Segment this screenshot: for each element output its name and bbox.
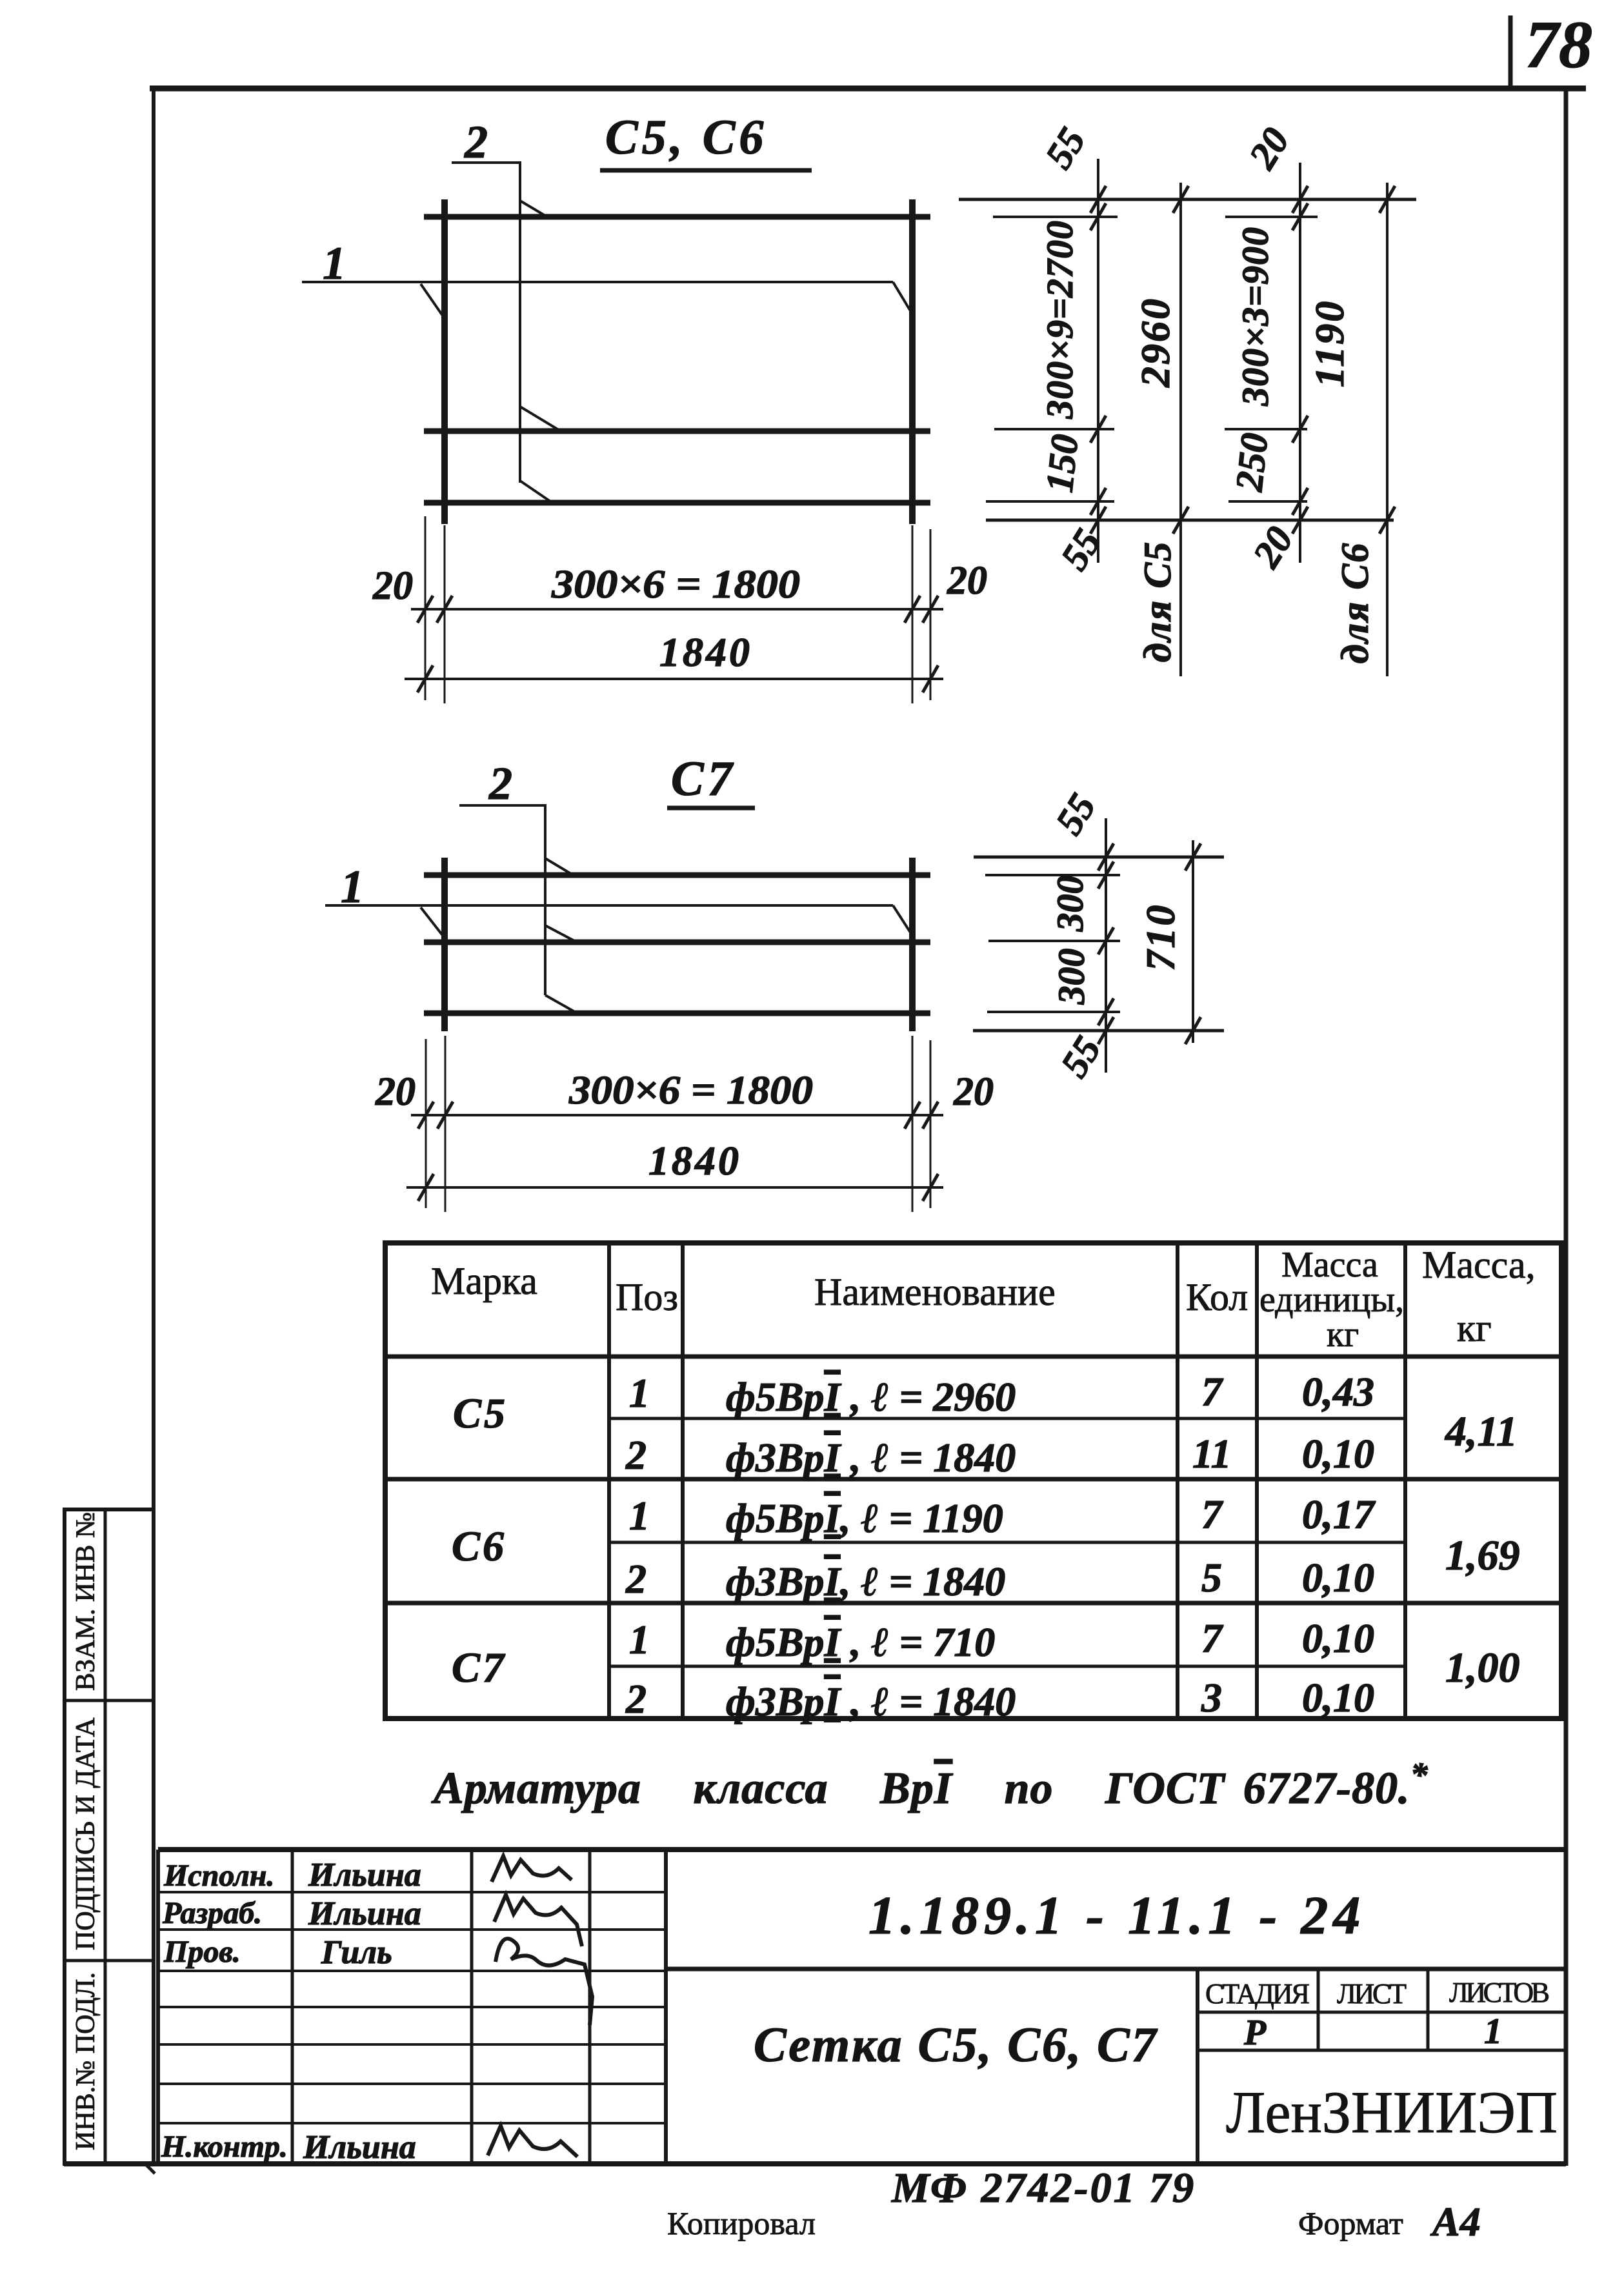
bottom cross wire bbox=[424, 1011, 930, 1016]
tick bbox=[418, 1174, 434, 1201]
chain line C5 detail bbox=[1097, 159, 1099, 563]
svg-text:2960: 2960 bbox=[1132, 297, 1178, 388]
row line C7 inner bbox=[609, 1665, 1405, 1668]
chain line C6 overall bbox=[1386, 183, 1388, 676]
svg-text:Разраб.: Разраб. bbox=[162, 1896, 262, 1930]
svg-text:ЛенЗНИИЭП: ЛенЗНИИЭП bbox=[1226, 2079, 1558, 2145]
svg-text:55: 55 bbox=[1037, 120, 1094, 176]
svg-text:0,43: 0,43 bbox=[1302, 1369, 1374, 1415]
svg-text:4,11: 4,11 bbox=[1444, 1408, 1518, 1455]
svg-text:1: 1 bbox=[629, 1617, 650, 1662]
svg-text:20: 20 bbox=[375, 1070, 416, 1114]
svg-text:ЛИСТОВ: ЛИСТОВ bbox=[1449, 1977, 1550, 2008]
dim line 300x6=1800 bbox=[411, 608, 943, 610]
svg-text:Ильина: Ильина bbox=[308, 1895, 421, 1932]
svg-text:20: 20 bbox=[953, 1070, 994, 1114]
tick bbox=[1090, 186, 1106, 213]
extension line right bar bbox=[912, 1036, 914, 1212]
extension line left bar bbox=[445, 1036, 446, 1212]
tick bbox=[1292, 416, 1308, 443]
middle cross wire bbox=[424, 940, 930, 945]
svg-text:2: 2 bbox=[625, 1676, 647, 1722]
tick bbox=[1090, 203, 1106, 230]
dim line 1840 bbox=[405, 678, 943, 680]
wire3 extension bbox=[987, 1011, 1120, 1013]
wire11 extension a bbox=[986, 500, 1114, 503]
svg-text:ПОДПИСЬ И ДАТА: ПОДПИСЬ И ДАТА bbox=[71, 1717, 101, 1950]
table outer border bbox=[385, 1243, 1561, 1719]
left edge bar bbox=[441, 199, 448, 524]
wire 2 tie mark b bbox=[545, 925, 578, 943]
tick bbox=[1173, 186, 1188, 213]
svg-text:20: 20 bbox=[1241, 120, 1298, 176]
extension line left outer bbox=[425, 516, 426, 700]
svg-text:Р: Р bbox=[1243, 2013, 1267, 2053]
bottom extension line bbox=[986, 519, 1394, 522]
tick bbox=[923, 1174, 938, 1201]
wire 1 right hook bbox=[893, 282, 912, 313]
svg-text:2: 2 bbox=[464, 116, 488, 168]
left stamp divider vertical bbox=[104, 1509, 107, 2164]
svg-text:710: 710 bbox=[1138, 903, 1183, 971]
wire10 extension a bbox=[994, 428, 1114, 430]
column line 1 bbox=[291, 1850, 294, 2164]
tick bbox=[1090, 488, 1106, 515]
svg-text:5: 5 bbox=[1201, 1555, 1222, 1600]
top cross wire bbox=[424, 214, 930, 220]
svg-text:ф3ВрI, ℓ = 1840: ф3ВрI, ℓ = 1840 bbox=[726, 1559, 1005, 1604]
svg-text:20: 20 bbox=[947, 559, 987, 603]
tick bbox=[1185, 1017, 1201, 1044]
right edge bar bbox=[909, 199, 916, 524]
extension line right bar bbox=[912, 525, 914, 703]
svg-text:Ильина: Ильина bbox=[303, 2129, 416, 2166]
svg-text:2: 2 bbox=[625, 1556, 647, 1602]
svg-text:С7: С7 bbox=[671, 752, 736, 806]
extension line right outer bbox=[930, 1040, 932, 1208]
tick bbox=[1292, 186, 1308, 213]
tick bbox=[437, 596, 452, 623]
title underline bbox=[667, 806, 755, 811]
tick bbox=[923, 1102, 938, 1129]
tick bbox=[1185, 843, 1201, 871]
column line 2 bbox=[470, 1850, 474, 2164]
stadia header underline bbox=[1198, 2011, 1566, 2014]
left stamp outer box bbox=[65, 1509, 154, 2164]
column line Marka|Poz bbox=[607, 1243, 611, 1719]
svg-text:Масса: Масса bbox=[1281, 1245, 1378, 1285]
svg-text:0,10: 0,10 bbox=[1302, 1555, 1374, 1600]
svg-text:для С6: для С6 bbox=[1334, 542, 1376, 663]
tick bbox=[1098, 1017, 1114, 1044]
wire 1 left hook bbox=[421, 284, 444, 318]
svg-text:Копировал: Копировал bbox=[667, 2205, 816, 2241]
stadia value underline bbox=[1198, 2049, 1566, 2052]
svg-text:Ильина: Ильина bbox=[308, 1857, 421, 1893]
svg-text:11: 11 bbox=[1192, 1431, 1231, 1477]
tick bbox=[1098, 862, 1114, 889]
svg-text:ВЗАМ. ИНВ №: ВЗАМ. ИНВ № bbox=[71, 1512, 101, 1691]
signature 2 bbox=[494, 1895, 582, 1946]
svg-text:0,10: 0,10 bbox=[1302, 1675, 1374, 1720]
svg-text:1: 1 bbox=[1484, 2012, 1502, 2052]
svg-text:СТАДИЯ: СТАДИЯ bbox=[1205, 1978, 1310, 2010]
bottom cross wire bbox=[424, 500, 930, 506]
row line 3 bbox=[158, 1970, 666, 1972]
svg-text:1.189.1 - 11.1 - 24: 1.189.1 - 11.1 - 24 bbox=[868, 1886, 1365, 1946]
svg-text:1840: 1840 bbox=[648, 1138, 741, 1184]
svg-text:1,69: 1,69 bbox=[1445, 1532, 1520, 1579]
svg-text:А4: А4 bbox=[1430, 2199, 1481, 2245]
svg-text:250: 250 bbox=[1227, 431, 1276, 494]
svg-text:ЛИСТ: ЛИСТ bbox=[1337, 1978, 1407, 2010]
column line 3 bbox=[588, 1850, 592, 2164]
tick bbox=[923, 596, 938, 623]
svg-text:Масса,: Масса, bbox=[1422, 1244, 1536, 1286]
chain line C6 detail bbox=[1299, 163, 1301, 563]
svg-text:Н.контр.: Н.контр. bbox=[161, 2130, 288, 2164]
svg-text:Марка: Марка bbox=[431, 1260, 537, 1302]
svg-text:7: 7 bbox=[1201, 1615, 1224, 1661]
title block top border bbox=[158, 1847, 1566, 1852]
svg-text:1,00: 1,00 bbox=[1445, 1644, 1520, 1691]
tick bbox=[418, 1102, 434, 1129]
svg-text:единицы,: единицы, bbox=[1259, 1280, 1404, 1320]
doc number box divider bbox=[666, 1967, 1566, 1972]
column line Poz|Naimenovanie bbox=[681, 1243, 685, 1719]
chain line C7 detail bbox=[1105, 818, 1107, 1073]
svg-text:Исполн.: Исполн. bbox=[163, 1859, 274, 1893]
wire 2 leader hook bbox=[452, 163, 520, 483]
svg-text:55: 55 bbox=[1047, 786, 1104, 842]
tick bbox=[1173, 507, 1188, 534]
extension line left outer bbox=[425, 1039, 427, 1208]
frame top border bbox=[150, 86, 1586, 92]
extension line right outer bbox=[930, 529, 932, 700]
extension line left bar bbox=[444, 525, 446, 703]
left stamp divider 2 bbox=[65, 1959, 154, 1962]
wire 2 tie mark a bbox=[545, 858, 574, 876]
wire1 extension b bbox=[1225, 216, 1318, 218]
corner mark bbox=[145, 2163, 155, 2174]
row line 4 bbox=[158, 2006, 666, 2008]
column line Naimenovanie|Kol bbox=[1176, 1243, 1179, 1719]
tick bbox=[905, 1102, 920, 1129]
wire 1 left hook bbox=[421, 907, 444, 937]
wire 2 tie mark c bbox=[545, 995, 579, 1014]
svg-text:1: 1 bbox=[629, 1493, 650, 1538]
tick bbox=[1292, 488, 1308, 515]
svg-text:0,17: 0,17 bbox=[1302, 1491, 1376, 1537]
svg-text:Сетка С5, С6, С7: Сетка С5, С6, С7 bbox=[754, 2018, 1158, 2072]
chain line C7 overall bbox=[1192, 840, 1194, 1043]
title underline bbox=[600, 168, 812, 173]
svg-text:300×9=2700: 300×9=2700 bbox=[1039, 220, 1081, 419]
signature 4 bbox=[488, 2126, 577, 2157]
column line 4 bbox=[664, 1850, 668, 2164]
svg-text:300: 300 bbox=[1050, 949, 1092, 1005]
svg-text:С5: С5 bbox=[453, 1390, 508, 1437]
signature 3 bbox=[496, 1939, 592, 2025]
frame left border bbox=[152, 86, 155, 2166]
wire 2 tie mark c bbox=[520, 481, 552, 503]
top extension line bbox=[959, 198, 1416, 201]
header separator row bbox=[385, 1355, 1561, 1359]
svg-text:С7: С7 bbox=[452, 1644, 506, 1691]
tick bbox=[1090, 416, 1106, 443]
row line C6 inner bbox=[609, 1541, 1405, 1544]
right edge bar bbox=[909, 858, 916, 1031]
tick bbox=[437, 1102, 453, 1129]
svg-text:1: 1 bbox=[323, 237, 346, 289]
svg-text:Гиль: Гиль bbox=[321, 1934, 392, 1971]
svg-text:20: 20 bbox=[1245, 519, 1301, 575]
tick bbox=[1098, 998, 1114, 1025]
svg-text:0,10: 0,10 bbox=[1302, 1431, 1374, 1477]
row line 7 bbox=[158, 2122, 666, 2124]
svg-text:С5, С6: С5, С6 bbox=[605, 110, 767, 165]
middle cross wire bbox=[424, 429, 930, 434]
svg-text:300×6 = 1800: 300×6 = 1800 bbox=[568, 1069, 813, 1113]
wire1 extension a bbox=[993, 216, 1118, 218]
wire 2 tie mark b bbox=[520, 407, 557, 429]
svg-text:78: 78 bbox=[1525, 8, 1592, 82]
row line C5|C6 bbox=[385, 1477, 1561, 1482]
row line 2 bbox=[158, 1928, 666, 1931]
tick bbox=[1292, 203, 1308, 230]
left stamp divider 1 bbox=[65, 1699, 154, 1702]
svg-text:300×3=900: 300×3=900 bbox=[1234, 227, 1276, 407]
wire 1 right hook bbox=[893, 905, 912, 934]
top cross wire bbox=[424, 873, 930, 878]
frame right border bbox=[1564, 86, 1569, 2166]
svg-text:для С5: для С5 bbox=[1136, 541, 1179, 662]
svg-text:кг: кг bbox=[1327, 1315, 1359, 1355]
tick bbox=[1292, 507, 1308, 534]
tick bbox=[1379, 186, 1395, 213]
svg-text:1: 1 bbox=[341, 861, 364, 913]
wire 2 leader hook bbox=[459, 805, 545, 995]
row line 5 bbox=[158, 2043, 666, 2046]
svg-text:1190: 1190 bbox=[1307, 299, 1352, 387]
svg-text:7: 7 bbox=[1201, 1369, 1224, 1415]
page number tick bbox=[1509, 15, 1513, 86]
svg-text:3: 3 bbox=[1201, 1675, 1222, 1720]
svg-text:ф5ВрI , ℓ = 2960: ф5ВрI , ℓ = 2960 bbox=[726, 1374, 1016, 1420]
svg-text:МФ 2742-01 79: МФ 2742-01 79 bbox=[891, 2164, 1196, 2212]
svg-text:Наименование: Наименование bbox=[814, 1271, 1056, 1313]
tick bbox=[417, 665, 433, 692]
svg-text:Формат: Формат bbox=[1298, 2205, 1403, 2241]
name box right divider bbox=[1196, 1969, 1199, 2164]
tick bbox=[417, 596, 433, 623]
wire10 extension b bbox=[1225, 428, 1307, 430]
tick bbox=[1090, 507, 1106, 534]
svg-text:2: 2 bbox=[625, 1432, 647, 1478]
list listov divider bbox=[1427, 1969, 1430, 2050]
tick bbox=[1098, 927, 1114, 954]
frame bottom border bbox=[64, 2161, 1566, 2166]
wire 1 (longitudinal) bbox=[302, 281, 893, 283]
wire1 extension bbox=[985, 874, 1120, 876]
svg-text:ф5ВрI , ℓ = 710: ф5ВрI , ℓ = 710 bbox=[726, 1619, 995, 1665]
svg-text:Поз: Поз bbox=[616, 1276, 678, 1318]
row line 1 bbox=[158, 1891, 666, 1893]
tick bbox=[1098, 843, 1114, 871]
stadia list divider bbox=[1317, 1969, 1320, 2050]
chain line C5 overall bbox=[1179, 183, 1182, 676]
wire2 extension bbox=[988, 940, 1120, 942]
title block left border bbox=[156, 1850, 160, 2164]
svg-text:ф3ВрI , ℓ = 1840: ф3ВрI , ℓ = 1840 bbox=[726, 1679, 1016, 1724]
row line C5 inner bbox=[609, 1417, 1405, 1420]
dim line 300x6=1800 bbox=[411, 1114, 943, 1116]
svg-text:Кол: Кол bbox=[1186, 1276, 1248, 1318]
svg-text:150: 150 bbox=[1038, 432, 1087, 494]
svg-text:2: 2 bbox=[488, 758, 512, 809]
tick bbox=[905, 596, 920, 623]
row line C6|C7 bbox=[385, 1601, 1561, 1606]
svg-text:Арматура класса ВрI по ГОСТ 67: Арматура класса ВрI по ГОСТ 6727-80.* bbox=[431, 1755, 1429, 1813]
column line Massa edinicy|Massa bbox=[1403, 1243, 1407, 1719]
svg-text:1: 1 bbox=[629, 1370, 650, 1416]
svg-text:ф5ВрI, ℓ = 1190: ф5ВрI, ℓ = 1190 bbox=[726, 1495, 1003, 1541]
tick bbox=[1379, 507, 1395, 534]
svg-text:1840: 1840 bbox=[659, 629, 752, 675]
row line 6 bbox=[158, 2083, 666, 2085]
svg-text:300×6 = 1800: 300×6 = 1800 bbox=[551, 563, 800, 607]
svg-text:7: 7 bbox=[1201, 1491, 1224, 1537]
svg-text:ИНВ.№ ПОДЛ.: ИНВ.№ ПОДЛ. bbox=[71, 1972, 101, 2150]
svg-text:55: 55 bbox=[1052, 521, 1109, 577]
svg-text:кг: кг bbox=[1457, 1307, 1492, 1349]
svg-text:300: 300 bbox=[1049, 876, 1091, 933]
svg-text:0,10: 0,10 bbox=[1302, 1615, 1374, 1661]
top extension line bbox=[974, 856, 1224, 859]
signature 1 bbox=[492, 1856, 572, 1882]
column line Kol|Massa edinicy bbox=[1255, 1243, 1259, 1719]
tick bbox=[923, 665, 938, 692]
svg-text:20: 20 bbox=[372, 564, 413, 608]
left edge bar bbox=[441, 858, 448, 1031]
svg-text:С6: С6 bbox=[452, 1523, 506, 1570]
svg-text:ф3ВрI , ℓ = 1840: ф3ВрI , ℓ = 1840 bbox=[726, 1435, 1016, 1480]
wire 1 (longitudinal) bbox=[325, 904, 893, 907]
bottom extension line bbox=[973, 1029, 1224, 1033]
wire11 extension b bbox=[1228, 500, 1307, 503]
dim line 1840 bbox=[406, 1186, 943, 1189]
svg-text:Пров.: Пров. bbox=[163, 1935, 241, 1969]
wire 2 tie mark a bbox=[520, 201, 547, 217]
